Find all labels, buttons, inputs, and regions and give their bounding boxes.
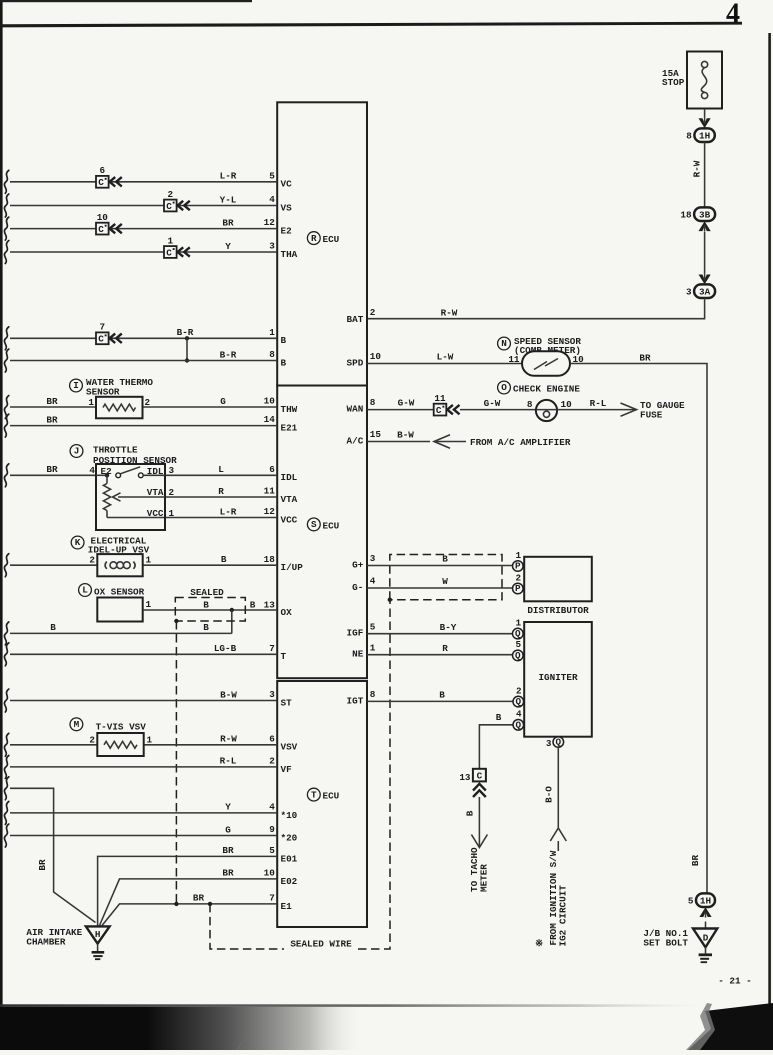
wire VCC pin12 L-R <box>107 517 277 519</box>
svg-text:VCC: VCC <box>147 508 164 519</box>
svg-text:R-L: R-L <box>220 756 237 767</box>
connector C 6 <box>96 176 109 188</box>
wire VTA pin11 R <box>165 496 277 498</box>
svg-text:R: R <box>311 233 317 244</box>
connector 3B pin 18 <box>694 207 715 221</box>
svg-text:SPD: SPD <box>347 357 364 368</box>
pin Q3 bottom <box>553 737 564 748</box>
svg-text:10: 10 <box>97 212 109 223</box>
scan slash mark <box>237 1037 246 1050</box>
switch idl contacts <box>116 473 121 478</box>
svg-text:ECU: ECU <box>323 521 340 532</box>
svg-text:3: 3 <box>370 553 376 564</box>
wire B to tacho meter <box>478 797 480 847</box>
svg-text:B-R: B-R <box>177 327 194 338</box>
svg-text:BR: BR <box>222 217 234 228</box>
resistor: water thermo sensor <box>96 397 143 419</box>
svg-text:T: T <box>281 651 287 662</box>
igniter box <box>524 622 592 737</box>
connector 1H pin 5 bottom <box>696 893 715 907</box>
svg-text:N: N <box>501 338 507 349</box>
ground J/B No.1 set bolt D <box>693 929 717 948</box>
wire THW pin10 G <box>4 396 8 419</box>
svg-text:E1: E1 <box>281 901 293 912</box>
svg-text:B: B <box>203 600 209 611</box>
svg-text:THA: THA <box>281 249 298 260</box>
svg-text:CHAMBER: CHAMBER <box>26 937 65 948</box>
wire *10 pin4 Y <box>4 801 8 824</box>
svg-text:C: C <box>166 201 172 212</box>
svg-text:R-L: R-L <box>590 398 607 409</box>
svg-text:B: B <box>203 622 209 633</box>
svg-text:- 21 -: - 21 - <box>718 976 751 987</box>
wire B-O from ignition <box>557 747 559 827</box>
svg-text:9: 9 <box>269 824 275 835</box>
connector C 10 <box>96 223 109 235</box>
svg-text:IG2 CIRCUIT: IG2 CIRCUIT <box>557 885 568 947</box>
svg-text:1: 1 <box>146 555 152 566</box>
svg-text:8: 8 <box>527 399 533 410</box>
svg-text:B-Y: B-Y <box>440 622 457 633</box>
svg-text:VSV: VSV <box>281 742 298 753</box>
svg-text:T: T <box>311 789 317 800</box>
ECU T label <box>307 788 320 801</box>
svg-text:3B: 3B <box>699 209 711 220</box>
ECU box S <box>277 386 367 679</box>
svg-text:G-W: G-W <box>484 398 501 409</box>
svg-text:1: 1 <box>147 734 153 745</box>
lamp check engine <box>536 400 557 421</box>
wire E2 pin12 BR <box>4 217 8 240</box>
svg-text:E01: E01 <box>281 853 298 864</box>
svg-text:C: C <box>166 247 172 258</box>
svg-text:Q: Q <box>515 628 521 639</box>
wire BR to ground <box>4 777 8 800</box>
svg-text:3: 3 <box>686 286 692 297</box>
ECU box T <box>277 681 367 927</box>
svg-text:2: 2 <box>370 307 376 318</box>
svg-text:BR: BR <box>46 464 58 475</box>
svg-text:THW: THW <box>281 404 298 415</box>
electrical idle-up VSV K label <box>71 536 84 549</box>
svg-text:J: J <box>74 446 80 457</box>
connector C 2 <box>164 200 177 212</box>
svg-text:R-W: R-W <box>441 308 458 319</box>
svg-text:11: 11 <box>264 486 276 497</box>
wire E01 pin5 BR <box>98 856 278 925</box>
ground air intake chamber H <box>86 926 110 943</box>
svg-text:3: 3 <box>269 241 275 252</box>
svg-text:BR: BR <box>37 859 48 871</box>
dashed sealed wire bottom <box>210 904 284 949</box>
wire T pin7 LG-B <box>4 643 8 666</box>
wire NE pin1 R <box>367 654 513 656</box>
svg-text:E02: E02 <box>281 876 298 887</box>
svg-text:BR: BR <box>46 414 58 425</box>
wire BR speed sensor to right <box>570 364 707 895</box>
svg-text:R-W: R-W <box>220 734 237 745</box>
speed sensor N label <box>498 337 511 350</box>
svg-text:2: 2 <box>145 397 151 408</box>
svg-text:12: 12 <box>264 217 276 228</box>
T-VIS VSV M label <box>70 718 83 731</box>
wire OX pin13 B <box>143 609 278 611</box>
svg-text:K: K <box>75 537 81 548</box>
svg-text:14: 14 <box>264 414 276 425</box>
svg-text:4: 4 <box>370 576 376 587</box>
svg-text:10: 10 <box>561 399 573 410</box>
svg-text:SENSOR: SENSOR <box>86 386 120 397</box>
svg-text:3: 3 <box>269 689 275 700</box>
svg-text:P: P <box>515 561 521 572</box>
resistor: T-VIS VSV <box>97 733 143 756</box>
wire R-L to gauge fuse <box>557 409 635 411</box>
svg-text:Q: Q <box>516 719 522 730</box>
svg-text:CHECK ENGINE: CHECK ENGINE <box>513 384 580 395</box>
svg-text:2: 2 <box>89 734 95 745</box>
wire E1 pin7 BR <box>102 904 277 926</box>
node sealed junction <box>174 619 178 623</box>
svg-text:IGF: IGF <box>347 628 364 639</box>
svg-text:1: 1 <box>146 599 152 610</box>
wire IDL pin6 L <box>4 464 8 487</box>
wire WAN pin8 G-W <box>367 409 434 411</box>
wiper arrow VTA <box>118 496 165 498</box>
svg-text:M: M <box>74 719 80 730</box>
svg-text:18: 18 <box>264 554 276 565</box>
wire VS pin4 Y-L <box>4 194 8 217</box>
connector C 1 <box>164 246 177 258</box>
svg-text:SET BOLT: SET BOLT <box>643 937 688 948</box>
svg-text:BR: BR <box>46 396 58 407</box>
wire G+ pin3 B <box>367 565 513 567</box>
svg-text:VC: VC <box>281 179 293 190</box>
connector C 13 <box>473 769 486 782</box>
ox sensor L label <box>79 584 92 597</box>
distributor box <box>524 557 592 602</box>
op-amp: none / ECU box R <box>277 102 367 385</box>
svg-text:G: G <box>225 824 231 835</box>
dashed sealed box distributor <box>390 555 502 600</box>
speed sensor (comb. meter) <box>522 351 570 376</box>
wire IGF pin5 B-Y <box>367 633 513 635</box>
wire B pin8 B-R <box>4 349 8 372</box>
svg-text:R-W: R-W <box>692 160 703 177</box>
svg-text:5: 5 <box>370 621 376 632</box>
svg-text:O: O <box>501 382 507 393</box>
svg-text:T-VIS VSV: T-VIS VSV <box>96 722 147 733</box>
svg-text:B: B <box>221 554 227 565</box>
svg-text:4: 4 <box>269 194 275 205</box>
svg-text:3A: 3A <box>699 286 711 297</box>
svg-text:B: B <box>281 357 287 368</box>
svg-text:L: L <box>218 464 224 475</box>
wire B pin1 B-R <box>4 327 8 350</box>
svg-text:4: 4 <box>269 802 275 813</box>
wire sealed B lower <box>231 610 233 633</box>
svg-text:B: B <box>464 810 475 816</box>
svg-text:VCC: VCC <box>281 514 298 525</box>
svg-text:C: C <box>477 770 483 781</box>
svg-text:5: 5 <box>516 639 522 650</box>
svg-text:2: 2 <box>269 756 275 767</box>
node E1 dashed junctions <box>174 902 178 906</box>
svg-text:B: B <box>496 712 502 723</box>
water thermo sensor I label <box>70 379 83 392</box>
svg-text:ST: ST <box>281 697 293 708</box>
svg-text:E2: E2 <box>281 226 293 237</box>
page left border <box>0 0 3 1050</box>
svg-text:D: D <box>703 933 709 944</box>
svg-text:B: B <box>250 600 256 611</box>
svg-text:B: B <box>439 690 445 701</box>
svg-text:WAN: WAN <box>347 404 364 415</box>
svg-text:G+: G+ <box>352 559 364 570</box>
svg-text:5: 5 <box>269 170 275 181</box>
svg-text:I/UP: I/UP <box>281 562 304 573</box>
svg-text:6: 6 <box>100 165 106 176</box>
svg-text:BR: BR <box>690 855 701 867</box>
svg-text:VF: VF <box>281 764 293 775</box>
svg-text:2: 2 <box>516 572 522 583</box>
svg-text:10: 10 <box>264 396 276 407</box>
svg-text:8: 8 <box>269 349 275 360</box>
svg-text:13: 13 <box>459 772 471 783</box>
pin Q1 <box>513 628 524 639</box>
svg-text:1H: 1H <box>700 895 711 906</box>
potentiometer <box>106 475 108 483</box>
svg-text:3: 3 <box>169 465 175 476</box>
ECU R label <box>307 232 320 245</box>
svg-text:Y: Y <box>225 802 231 813</box>
svg-text:1: 1 <box>88 397 94 408</box>
wire fuse to 1H <box>704 109 706 129</box>
svg-text:C: C <box>436 405 442 416</box>
wire B to pin Q4 <box>479 725 513 769</box>
throttle position sensor J label <box>70 445 83 458</box>
svg-text:Q: Q <box>516 696 522 707</box>
svg-text:L-R: L-R <box>220 171 237 182</box>
inductor: idle-up VSV coil <box>97 554 142 576</box>
svg-text:5: 5 <box>688 895 694 906</box>
pin Q2 <box>513 696 524 707</box>
svg-text:10: 10 <box>370 351 382 362</box>
svg-text:7: 7 <box>269 893 275 904</box>
svg-text:H: H <box>95 929 101 940</box>
svg-text:B: B <box>442 554 448 565</box>
page right border <box>768 33 771 1006</box>
wire E21 pin14 BR <box>4 414 8 437</box>
svg-text:11: 11 <box>434 393 446 404</box>
svg-text:7: 7 <box>100 322 106 333</box>
wire *20 pin9 G <box>4 824 8 847</box>
svg-text:2: 2 <box>169 487 175 498</box>
wire I/UP pin18 B <box>4 554 8 577</box>
page top edge <box>0 0 252 2</box>
svg-text:BR: BR <box>222 868 234 879</box>
fuse 15A STOP <box>687 52 722 109</box>
wire G- pin4 W <box>367 587 513 589</box>
svg-text:S: S <box>311 519 317 530</box>
svg-text:6: 6 <box>269 733 275 744</box>
svg-text:P: P <box>515 583 521 594</box>
svg-text:8: 8 <box>686 130 692 141</box>
pin P1 <box>513 561 524 572</box>
svg-text:5: 5 <box>269 845 275 856</box>
svg-text:ECU: ECU <box>323 791 340 802</box>
svg-text:L-W: L-W <box>437 352 454 363</box>
svg-text:4: 4 <box>726 0 740 30</box>
dashed sealed wire left vertical <box>175 621 177 904</box>
connector 3A pin 3 <box>694 284 715 298</box>
wire A/C pin15 B-W <box>367 441 430 443</box>
svg-text:LG-B: LG-B <box>214 643 237 654</box>
svg-text:IGT: IGT <box>347 695 364 706</box>
svg-text:C: C <box>98 334 104 345</box>
svg-text:R: R <box>442 643 448 654</box>
svg-text:1H: 1H <box>699 130 710 141</box>
svg-text:Y: Y <box>225 241 231 252</box>
svg-text:E21: E21 <box>281 423 298 434</box>
svg-text:8: 8 <box>370 689 376 700</box>
ECU S label <box>307 518 320 531</box>
svg-text:2: 2 <box>89 555 95 566</box>
svg-text:ECU: ECU <box>323 234 340 245</box>
svg-text:L: L <box>82 585 88 596</box>
svg-text:*20: *20 <box>281 832 298 843</box>
svg-text:1: 1 <box>516 550 522 561</box>
svg-text:Q: Q <box>556 737 562 748</box>
svg-text:BR: BR <box>639 352 651 363</box>
svg-text:Q: Q <box>515 650 521 661</box>
scan blob bottom right <box>688 1003 773 1050</box>
connector 1H pin 8 <box>694 128 714 142</box>
svg-text:C: C <box>98 224 104 235</box>
ox sensor box <box>97 598 142 622</box>
svg-text:IGNITER: IGNITER <box>538 672 577 683</box>
svg-text:B-R: B-R <box>220 349 237 360</box>
svg-text:10: 10 <box>264 868 276 879</box>
svg-text:1: 1 <box>168 235 174 246</box>
wire 3B to 3A <box>704 232 706 276</box>
svg-text:B: B <box>50 622 56 633</box>
svg-text:OX SENSOR: OX SENSOR <box>94 587 145 598</box>
wire VSV pin6 R-W <box>4 733 8 756</box>
svg-text:1: 1 <box>169 508 175 519</box>
svg-text:2: 2 <box>516 685 522 696</box>
svg-text:12: 12 <box>264 506 276 517</box>
svg-text:2: 2 <box>168 189 174 200</box>
top rule <box>0 22 742 28</box>
svg-text:B-O: B-O <box>544 786 555 803</box>
svg-text:13: 13 <box>264 600 276 611</box>
svg-text:B-W: B-W <box>397 430 414 441</box>
wire SPD pin10 L-W <box>367 363 522 365</box>
wire VC pin5 L-R <box>4 170 8 193</box>
svg-text:※: ※ <box>535 938 543 949</box>
svg-text:1: 1 <box>516 617 522 628</box>
pin Q5 <box>513 650 524 661</box>
svg-text:R: R <box>218 486 224 497</box>
wire IGT pin8 B <box>367 700 513 702</box>
svg-text:VTA: VTA <box>281 494 298 505</box>
svg-text:G-W: G-W <box>398 398 415 409</box>
svg-text:OX: OX <box>281 607 293 618</box>
node junction B-R <box>185 336 189 340</box>
connector C 7 <box>96 332 109 344</box>
svg-text:FUSE: FUSE <box>640 409 663 420</box>
wire THA pin3 Y <box>4 241 8 264</box>
svg-text:15: 15 <box>370 429 382 440</box>
svg-text:*10: *10 <box>281 810 298 821</box>
svg-text:1: 1 <box>269 327 275 338</box>
svg-text:BR: BR <box>222 845 234 856</box>
svg-text:VS: VS <box>281 202 293 213</box>
svg-text:SEALED: SEALED <box>190 587 224 598</box>
svg-text:8: 8 <box>370 397 376 408</box>
svg-text:6: 6 <box>269 464 275 475</box>
svg-text:4: 4 <box>89 465 95 476</box>
wire R-W BAT <box>367 298 705 319</box>
svg-text:SEALED WIRE: SEALED WIRE <box>290 939 352 950</box>
svg-text:G: G <box>220 396 226 407</box>
svg-text:VTA: VTA <box>147 487 164 498</box>
svg-text:18: 18 <box>680 209 692 220</box>
svg-text:STOP: STOP <box>662 77 685 88</box>
pin Q4 <box>513 720 524 731</box>
svg-text:3: 3 <box>546 738 552 749</box>
node dashed junction <box>388 598 392 602</box>
svg-text:THROTTLE: THROTTLE <box>93 444 138 455</box>
svg-text:C: C <box>98 177 104 188</box>
arrow from A/C amplifier <box>435 441 467 443</box>
svg-text:METER: METER <box>479 864 490 892</box>
svg-text:Y-L: Y-L <box>220 194 237 205</box>
wire VF pin2 R-L <box>4 755 8 778</box>
connector C 11 <box>434 404 447 416</box>
svg-text:IDL: IDL <box>281 472 298 483</box>
svg-text:I: I <box>73 380 79 391</box>
arrow to gauge fuse <box>621 403 637 416</box>
wire E02 pin10 BR <box>100 879 278 926</box>
svg-text:BAT: BAT <box>347 314 364 325</box>
throttle sensor box <box>96 464 165 530</box>
scan black block left <box>0 1007 148 1050</box>
svg-text:11: 11 <box>508 354 520 365</box>
arrow chevrons up into C13 <box>473 784 486 791</box>
svg-text:4: 4 <box>516 709 522 720</box>
svg-text:NE: NE <box>352 649 364 660</box>
svg-text:FROM A/C AMPLIFIER: FROM A/C AMPLIFIER <box>470 437 571 448</box>
svg-text:B: B <box>281 335 287 346</box>
wire G-W to check engine <box>460 409 536 411</box>
svg-text:DISTRIBUTOR: DISTRIBUTOR <box>527 605 589 616</box>
svg-text:A/C: A/C <box>347 435 364 446</box>
check engine O label <box>498 381 511 394</box>
svg-text:BR: BR <box>193 893 205 904</box>
wire ST pin3 B-W <box>4 689 8 712</box>
wire R-W vertical <box>704 142 706 207</box>
svg-text:1: 1 <box>370 642 376 653</box>
svg-text:L-R: L-R <box>220 506 237 517</box>
svg-text:B-W: B-W <box>220 689 237 700</box>
svg-text:7: 7 <box>269 643 275 654</box>
svg-text:W: W <box>442 576 448 587</box>
node E2 junction <box>105 473 109 477</box>
svg-text:G-: G- <box>352 582 363 593</box>
node OX junction <box>230 608 234 612</box>
pin P2 <box>513 583 524 594</box>
